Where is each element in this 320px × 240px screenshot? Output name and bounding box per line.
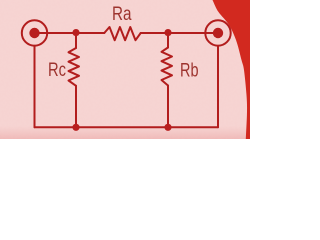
terminal T2 outer ring bbox=[205, 20, 230, 45]
terminal T1 outer ring bbox=[22, 20, 47, 45]
red corner graphic bbox=[213, 0, 251, 139]
wire: left vertical bbox=[34, 46, 36, 128]
svg-text:Rc: Rc bbox=[48, 60, 66, 81]
resistor Ra bbox=[104, 27, 140, 40]
svg-text:Rb: Rb bbox=[180, 61, 199, 82]
resistor Rb bbox=[162, 48, 173, 86]
wire: Rb bottom lead bbox=[167, 86, 169, 128]
resistor Rc bbox=[69, 48, 80, 86]
node B (Rb top junction) bbox=[164, 29, 171, 36]
wire: Rc top lead bbox=[75, 33, 77, 48]
node C (Rc bottom junction) bbox=[72, 124, 79, 131]
wire: Rc bottom lead bbox=[75, 86, 77, 128]
node A (Rc top junction) bbox=[72, 29, 79, 36]
svg-text:Ra: Ra bbox=[112, 4, 132, 25]
wire: right vertical bbox=[217, 46, 219, 128]
page background bbox=[0, 0, 250, 139]
terminal T1 center dot bbox=[29, 28, 39, 38]
node D (Rb bottom junction) bbox=[164, 124, 171, 131]
wire: top rail left segment bbox=[35, 32, 105, 34]
wire: Rb top lead bbox=[167, 33, 169, 48]
wire: bottom rail bbox=[35, 126, 219, 128]
terminal T2 center dot bbox=[213, 28, 223, 38]
wire: top rail right segment bbox=[141, 32, 218, 34]
